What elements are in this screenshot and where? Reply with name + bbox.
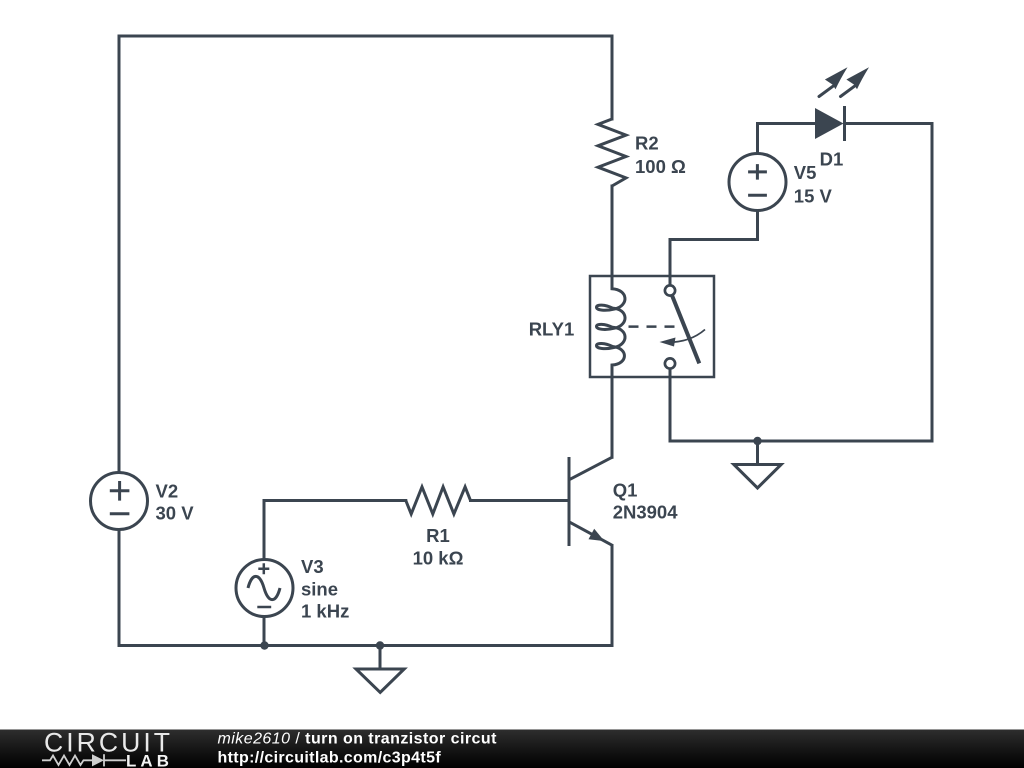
relay RLY1 dashed link (629, 325, 678, 328)
wire left lower (118, 530, 121, 646)
wire R2 bottom lead to relay (611, 186, 614, 276)
svg-text:30 V: 30 V (156, 503, 195, 524)
wire R1 to Q1 base (471, 499, 570, 502)
svg-text:15 V: 15 V (794, 185, 833, 206)
svg-text:V3: V3 (301, 556, 324, 577)
ground (relay) (734, 441, 781, 488)
svg-text:RLY1: RLY1 (529, 318, 575, 339)
wire R2 top lead (611, 36, 614, 119)
svg-text:1 kHz: 1 kHz (301, 601, 349, 622)
relay RLY1 switch blade (672, 295, 699, 363)
junction node relay-ground (753, 437, 761, 445)
junction node V3-bottom (260, 641, 268, 649)
relay RLY1 actuation arrow (667, 330, 705, 343)
svg-text:mike2610 / turn on tranzistor: mike2610 / turn on tranzistor circut (218, 731, 498, 748)
logo resistor-diode symbol (42, 756, 92, 766)
relay RLY1 box (590, 276, 714, 377)
svg-text:http://circuitlab.com/c3p4t5f: http://circuitlab.com/c3p4t5f (218, 750, 442, 767)
footer bar (0, 730, 1024, 768)
wire LED cathode right (845, 122, 932, 125)
wire bottom of LED loop (670, 440, 932, 443)
wire V3 bottom lead (263, 617, 266, 646)
svg-text:LAB: LAB (126, 753, 173, 768)
svg-text:R1: R1 (426, 525, 450, 546)
LED D1 light arrows (819, 86, 834, 97)
ground (bottom) (356, 646, 404, 693)
svg-text:sine: sine (301, 578, 338, 599)
wire base node to R1 (264, 499, 406, 502)
wire relay switch to V5 minus (670, 211, 758, 285)
voltage source V3 (sine) (236, 560, 293, 617)
wire left upper (118, 36, 121, 473)
svg-text:R2: R2 (635, 132, 659, 153)
wire right side down (931, 124, 934, 442)
transistor Q1 (569, 457, 612, 546)
wire V3 top lead (263, 501, 266, 560)
junction node ground-bottom (376, 641, 384, 649)
svg-text:V2: V2 (156, 481, 179, 502)
transistor Q1 emitter arrow (589, 529, 605, 541)
svg-text:100 Ω: 100 Ω (635, 156, 686, 177)
wire V5 to LED anode (758, 122, 816, 125)
resistor R2 (598, 119, 626, 186)
voltage source V2 (91, 473, 148, 530)
wire bottom (119, 644, 612, 647)
svg-text:V5: V5 (794, 162, 817, 183)
voltage source V5 (729, 154, 786, 211)
LED D1 (815, 108, 844, 139)
wire Q1 emitter down (611, 546, 614, 646)
resistor R1 (406, 487, 471, 514)
wire top (119, 35, 612, 38)
wire relay coil to Q1 collector (611, 377, 614, 457)
svg-text:Q1: Q1 (613, 479, 638, 500)
relay RLY1 switch contacts (665, 285, 675, 295)
svg-text:D1: D1 (820, 148, 844, 169)
svg-text:2N3904: 2N3904 (613, 501, 679, 522)
wire relay switch bottom down (669, 370, 672, 442)
relay RLY1 coil (597, 276, 626, 377)
wire V5 plus up (756, 124, 759, 154)
svg-text:10 kΩ: 10 kΩ (413, 548, 464, 569)
